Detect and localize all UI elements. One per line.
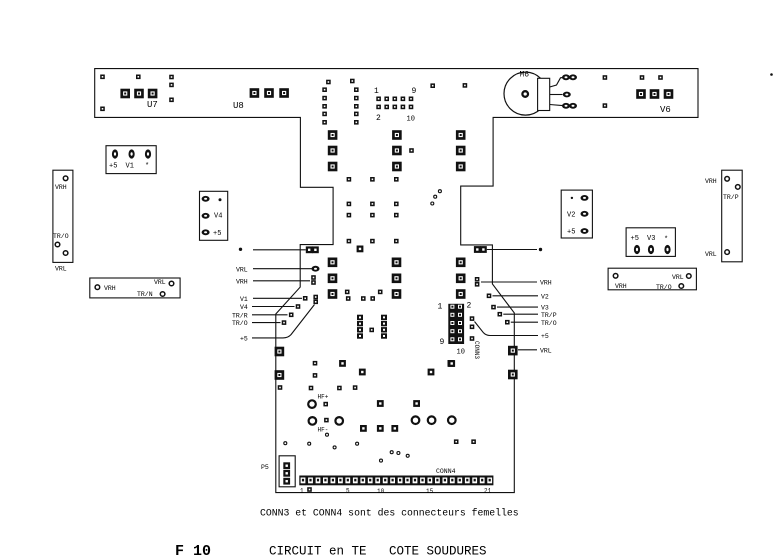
net +5 right (470, 316, 549, 341)
svg-text:VRH: VRH (615, 283, 627, 290)
center small pad rows (347, 177, 399, 252)
U7 pads (120, 89, 157, 99)
HF+ pad (308, 400, 328, 408)
M6 lead 3 wire (550, 105, 563, 106)
svg-text:+5: +5 (541, 333, 549, 340)
svg-text:HF+: HF+ (318, 394, 329, 401)
svg-text:P5: P5 (261, 464, 269, 471)
svg-text:V3: V3 (647, 235, 655, 243)
connector CONN1 grid (376, 97, 413, 110)
svg-text:U8: U8 (233, 101, 244, 111)
M6 lead 3 pads (562, 103, 577, 109)
right lower pads (448, 360, 517, 379)
CONN4 pin1 pad (307, 487, 312, 492)
svg-text:TR/O: TR/O (541, 320, 557, 327)
svg-text:VRH: VRH (705, 178, 717, 185)
left edge pad column (275, 347, 285, 390)
svg-text:V2: V2 (567, 212, 575, 220)
upper pad columns (322, 79, 358, 125)
svg-text:5: 5 (346, 488, 350, 495)
bottom circle pads (412, 416, 456, 424)
svg-text:TR/P: TR/P (723, 194, 739, 201)
svg-text:+5: +5 (213, 230, 221, 238)
speck (770, 73, 773, 76)
svg-text:COTE SOUDURES: COTE SOUDURES (389, 545, 487, 557)
svg-text:+5: +5 (567, 229, 575, 237)
svg-text:TR/N: TR/N (137, 291, 153, 298)
svg-text:1: 1 (438, 303, 443, 312)
net VRL left (236, 266, 320, 273)
net V3 right (491, 305, 549, 312)
svg-text:F 10: F 10 (175, 543, 211, 557)
svg-text:V6: V6 (660, 105, 671, 115)
svg-text:1: 1 (300, 488, 304, 495)
connector J4 box (200, 191, 228, 240)
connector CONN4 (299, 476, 493, 486)
lower mid pads (337, 360, 454, 390)
upper IC pads rows (328, 130, 466, 171)
svg-text:VRL: VRL (705, 251, 717, 258)
connector TR1 box left (53, 170, 73, 272)
svg-text:TR/O: TR/O (656, 284, 672, 291)
CONN4 pin numbers (300, 488, 492, 496)
svg-text:CIRCUIT en TE: CIRCUIT en TE (269, 545, 367, 557)
bar right small pads (603, 75, 663, 108)
svg-text:1: 1 (374, 87, 379, 96)
svg-text:+5: +5 (240, 336, 248, 343)
net +5 left (240, 305, 315, 343)
pad strip B (381, 315, 387, 339)
center mid pads (345, 290, 383, 301)
svg-text:CONN3: CONN3 (473, 341, 480, 359)
svg-text:M6: M6 (520, 71, 530, 80)
via cluster bottom (284, 433, 409, 462)
connector TR4 box right lower (608, 268, 696, 291)
M6 lead 2 pad (563, 92, 571, 98)
net V1 left (240, 295, 318, 304)
M6 lead 1 wire (550, 77, 563, 87)
svg-text:VRH: VRH (104, 285, 116, 292)
svg-text:V4: V4 (214, 213, 222, 221)
svg-text:2: 2 (376, 114, 381, 123)
M6 lead 1 pads (562, 74, 577, 80)
svg-text:*: * (664, 236, 668, 244)
svg-text:VRL: VRL (236, 266, 248, 273)
svg-text:VRL: VRL (672, 274, 684, 281)
lower IC pads rows (328, 258, 466, 299)
svg-text:VRL: VRL (55, 266, 67, 273)
node center pad (369, 328, 374, 333)
pad strip A (357, 315, 363, 339)
svg-text:HF-: HF- (318, 427, 329, 434)
M6 body (504, 72, 550, 115)
node right edge pads (474, 246, 542, 253)
mid lower pad column (309, 361, 318, 390)
svg-text:+5: +5 (109, 163, 117, 171)
svg-text:VRH: VRH (540, 280, 552, 287)
svg-text:V1: V1 (240, 296, 248, 303)
svg-text:+5: +5 (631, 235, 639, 243)
bottom right pads (454, 439, 476, 444)
net VRL right (508, 346, 552, 356)
svg-text:15: 15 (426, 488, 434, 495)
connector CONN3 (448, 304, 464, 344)
bar mounting pads left (100, 75, 174, 112)
svg-text:10: 10 (377, 488, 385, 495)
via cluster upper (431, 190, 442, 205)
net VRH left (236, 275, 316, 285)
HF- pads (309, 417, 343, 425)
net TR/P right (498, 312, 557, 319)
svg-text:U7: U7 (147, 100, 158, 110)
M6 center pad (522, 91, 528, 97)
V6 pads (636, 89, 673, 99)
M6 lead 2 wire (550, 94, 563, 96)
svg-text:21: 21 (484, 488, 492, 495)
svg-text:CONN3 et CONN4 sont des connec: CONN3 et CONN4 sont des connecteurs feme… (260, 508, 519, 519)
net VRH right (475, 277, 552, 287)
svg-text:2: 2 (467, 302, 472, 311)
svg-text:TR/P: TR/P (541, 312, 557, 319)
svg-text:10: 10 (457, 349, 465, 357)
svg-text:V3: V3 (541, 305, 549, 312)
connector J1 box (106, 146, 156, 174)
net TR/O left (232, 320, 286, 327)
bottom square pads (360, 400, 420, 432)
net V4 left (240, 304, 300, 311)
net TR/O right (505, 320, 557, 327)
svg-text:VRH: VRH (236, 278, 248, 285)
svg-text:VRH: VRH (55, 184, 67, 191)
connector V3 box (626, 228, 675, 257)
connector TR3 box right (705, 170, 742, 262)
net V2 right (487, 293, 549, 300)
svg-text:*: * (145, 163, 149, 171)
svg-text:VRL: VRL (540, 347, 552, 354)
svg-text:V1: V1 (126, 163, 134, 171)
node left edge pads (239, 246, 319, 253)
svg-text:9: 9 (412, 87, 417, 96)
connector P5 (279, 456, 295, 487)
svg-text:V2: V2 (541, 293, 549, 300)
connector V2 box right (561, 190, 592, 238)
svg-text:TR/R: TR/R (232, 312, 248, 319)
svg-text:CONN4: CONN4 (436, 468, 456, 475)
bar mid pads (430, 83, 467, 88)
net TR/R left (232, 312, 294, 319)
svg-text:10: 10 (407, 116, 415, 124)
board outline (95, 69, 698, 493)
svg-text:V4: V4 (240, 304, 248, 311)
svg-text:TR/O: TR/O (232, 320, 248, 327)
connector TR2 box left lower (90, 278, 180, 298)
svg-text:9: 9 (440, 338, 445, 347)
svg-text:VRL: VRL (154, 279, 166, 286)
U8 pads (250, 88, 289, 98)
svg-text:TR/O: TR/O (53, 233, 69, 240)
